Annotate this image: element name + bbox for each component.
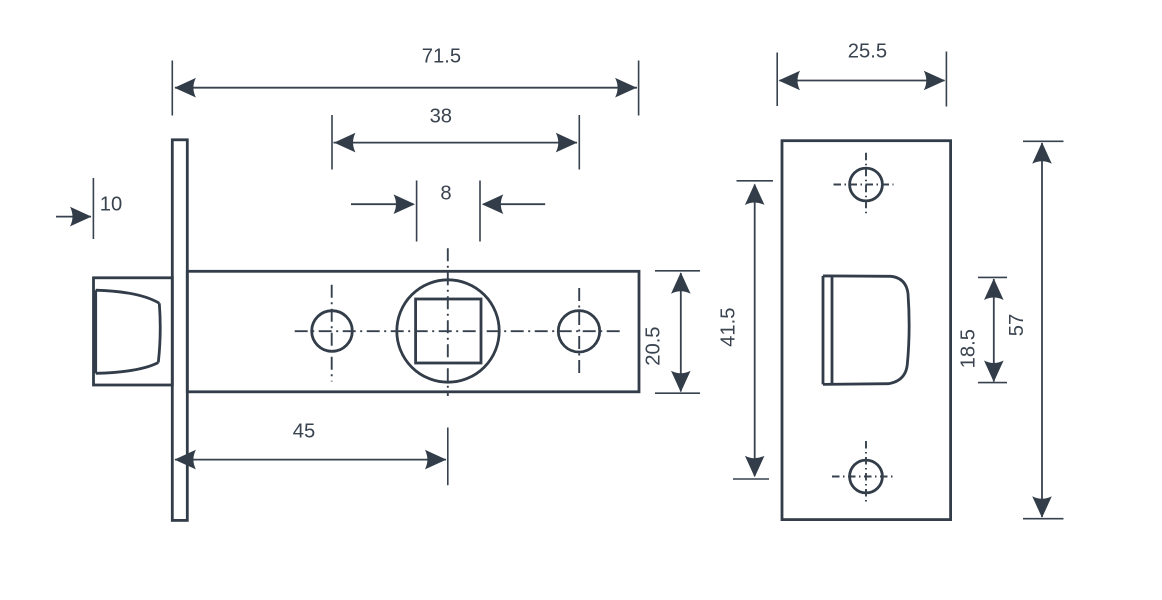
ext lines dim 41.5 [733,181,773,479]
arrow 41.5 bottom [745,456,765,478]
arrow 25.5 left [779,71,801,91]
arrow 71.5 right [615,78,637,98]
latch body side view [187,271,639,392]
ext lines dim 18.5 [978,277,1007,382]
ext lines dim 71.5 [172,61,638,116]
ext line dim 45 [447,428,449,486]
arrowheads [70,71,1052,518]
dim line 25.5 [780,80,945,82]
dim line 41.5 [754,185,756,477]
svg-text:71.5: 71.5 [422,45,461,67]
svg-text:38: 38 [430,105,452,127]
arrow 41.5 top [745,184,765,206]
arrow 8 right (points left) [482,194,504,214]
spindle circle [397,280,499,382]
arrow 38 left [334,133,356,153]
arrow 18.5 top [984,279,1004,301]
dim line 10 [56,216,91,218]
svg-text:41.5: 41.5 [717,308,739,347]
dim line 38 [334,142,578,144]
arrow 8 left (points right) [394,194,416,214]
dim line 57 [1041,143,1043,517]
dim line 45 [175,459,446,461]
faceplate side view (left view tall thin plate) [172,140,187,521]
faceplate front top screw circle [850,168,883,201]
svg-text:57: 57 [1006,314,1028,336]
svg-text:10: 10 [100,193,122,215]
svg-text:45: 45 [293,421,315,443]
arrow 38 right [556,133,578,153]
svg-text:8: 8 [440,182,451,204]
vertical centerline spindle [447,248,449,396]
svg-text:18.5: 18.5 [957,329,979,368]
horizontal centerline through holes (side view) [295,330,620,332]
dim line 18.5 [993,279,995,382]
ext lines dim 25.5 [777,52,946,107]
left screw hole circle [312,311,353,352]
dim lines 8 [351,203,545,205]
ext lines dim 38 [332,115,579,170]
latch bolt front view D shape [823,276,909,385]
svg-text:25.5: 25.5 [848,40,887,62]
vertical centerline left hole [331,285,333,382]
latch bolt curved face side view [96,290,161,373]
crosshair top screw front view [834,153,894,217]
vertical centerline right hole [578,288,580,374]
arrow 57 top [1032,142,1052,164]
arrow 20.5 bottom [671,371,691,393]
crosshair bottom screw front view [832,441,894,504]
ext lines dim 20.5 [655,271,700,393]
arrow 57 bottom [1032,496,1052,518]
right screw hole circle [558,311,599,352]
faceplate front view rectangle [782,141,951,520]
faceplate front bottom screw circle [850,460,883,493]
arrow 45 right [425,450,447,470]
ext line dim 10 [92,178,94,239]
arrow 18.5 bottom [984,361,1004,383]
ext lines dim 57 [1023,141,1064,518]
dim line 71.5 [175,87,637,89]
arrow 45 left [174,450,196,470]
dimension lines [56,81,1042,518]
dimension labels [100,40,1028,442]
latch bolt front view inner edge line [831,276,834,385]
dim line 20.5 [680,273,682,392]
arrow 10 (points right) [70,207,92,227]
arrow 20.5 top [671,272,691,294]
ext lines dim 8 [417,181,480,242]
spindle square 8mm [416,299,481,363]
arrow 25.5 right [924,71,946,91]
centerlines [295,248,620,396]
extension lines [93,52,1063,519]
latch bolt outer box side view [94,278,173,385]
svg-text:20.5: 20.5 [642,326,664,365]
arrow 71.5 left [174,78,196,98]
